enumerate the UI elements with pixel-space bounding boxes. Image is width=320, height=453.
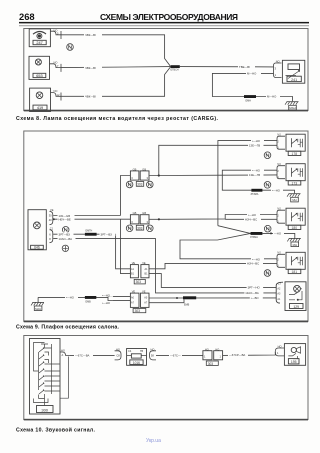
- svg-text:181: 181: [292, 270, 298, 274]
- svg-text:13АО—ВА: 13АО—ВА: [245, 291, 259, 295]
- svg-text:268: 268: [19, 11, 35, 22]
- wire label HE4-BE: [58, 217, 75, 221]
- circled N 181: [264, 270, 271, 277]
- svg-text:—67СР—ВА: —67СР—ВА: [229, 353, 245, 357]
- wire label NO 173: [251, 168, 264, 172]
- svg-text:129: 129: [293, 305, 299, 309]
- wire 1 label: [84, 33, 102, 37]
- svg-text:303: 303: [135, 309, 141, 313]
- wire label 3PT-B3: [58, 232, 74, 236]
- svg-text:ТВЕ—ВІ: ТВЕ—ВІ: [239, 65, 250, 69]
- svg-text:ЗТЗМА: ЗТЗМА: [251, 193, 259, 196]
- wire pair3 bottom out to lamp A2: [149, 274, 276, 288]
- svg-text:VЕ: VЕ: [142, 290, 146, 294]
- svg-text:НЗЧ—ВС: НЗЧ—ВС: [247, 262, 259, 266]
- svg-text:173: 173: [292, 181, 298, 185]
- svg-text:GВ: GВ: [133, 167, 137, 171]
- svg-text:•—НО: •—НО: [102, 293, 111, 297]
- svg-text:300: 300: [41, 407, 48, 412]
- wire 181 top into box: [276, 258, 277, 260]
- svg-text:303: 303: [137, 183, 143, 187]
- svg-text:—67С—: —67С—: [170, 354, 181, 358]
- wire 180 lower: [225, 218, 277, 220]
- connector shell VE at 646: [50, 211, 53, 224]
- courtesy switch 181: [277, 252, 305, 273]
- pin stub of 419: [51, 93, 62, 101]
- svg-text:С4: С4: [128, 349, 132, 353]
- bottom run wire to EMB bar: [38, 296, 108, 298]
- wire label NO gnd2: [273, 232, 284, 236]
- svg-text:303: 303: [208, 362, 214, 366]
- ground 1 schematic 9: [287, 194, 301, 202]
- circled N below pair1 left: [126, 181, 133, 188]
- timer unit 646 box: [28, 210, 46, 250]
- ground 2 schematic 9: [287, 238, 301, 246]
- wire 2 from 653: [61, 67, 171, 68]
- wire pair3 top out to 181 lower: [149, 263, 277, 268]
- wire label NO 178: [251, 139, 264, 143]
- wire label H34-BC 180: [244, 217, 261, 221]
- svg-text:МАН: МАН: [35, 307, 41, 311]
- wire to 173 lower pin: [222, 174, 277, 176]
- svg-text:МН: МН: [293, 243, 297, 247]
- circled N 173: [264, 182, 271, 189]
- svg-text:241: 241: [291, 78, 297, 82]
- wire 2 label: [84, 66, 102, 70]
- ground MAH schematic 8: [285, 102, 299, 110]
- wire label M-NO right: [266, 95, 280, 99]
- wire label 13K-GB: [58, 214, 75, 218]
- switch 300 output pin: [60, 352, 70, 355]
- svg-text:1016: 1016: [133, 361, 140, 365]
- wire label 13E-GB 173: [248, 173, 264, 177]
- svg-text:NO: NO: [277, 162, 281, 166]
- svg-text:303: 303: [137, 226, 143, 230]
- svg-text:—67С—ВА: —67С—ВА: [75, 354, 89, 358]
- lamp 653 box: [29, 56, 50, 79]
- circled N below pair1 right: [147, 181, 154, 188]
- svg-text:13АО—ВА: 13АО—ВА: [59, 237, 73, 241]
- wire label 13E-GB 178: [248, 143, 264, 147]
- schematic 9 frame: [24, 131, 308, 321]
- wire 3 from 419: [61, 67, 171, 97]
- svg-text:13Е—ГВ: 13Е—ГВ: [249, 173, 260, 177]
- column switch 300 internals: [34, 343, 60, 406]
- wire label NO pair4 lower: [101, 301, 113, 305]
- svg-text:НО: НО: [215, 347, 219, 351]
- wire label 3PT-B3 right: [100, 232, 116, 236]
- svg-text:С7: С7: [278, 281, 282, 285]
- splice bar ETRCH: [171, 65, 180, 68]
- svg-text:ЗТЗМА: ЗТЗМА: [250, 236, 258, 239]
- pin stub of 247: [50, 31, 61, 39]
- riser to pair3 lower pin: [121, 219, 131, 273]
- svg-text:ЗРТ—НО: ЗРТ—НО: [248, 286, 261, 290]
- rotary connector right shell: [150, 351, 156, 360]
- svg-text:GВ: GВ: [142, 211, 146, 215]
- riser junction to 178 lower wire: [159, 145, 277, 175]
- circled splice theta left: [62, 245, 68, 251]
- svg-text:303: 303: [136, 280, 142, 284]
- horn connector shell: [275, 348, 284, 356]
- wire 646-40: [53, 218, 130, 220]
- svg-text:Схема 9. Плафон освещения сало: Схема 9. Плафон освещения салона.: [16, 324, 120, 331]
- wire switch to rotary connector: [70, 354, 115, 356]
- svg-text:NO: NO: [276, 60, 280, 64]
- wire label NO pair4 upper: [101, 293, 113, 297]
- pair connector 303 second (GB-GB): [130, 215, 149, 224]
- svg-text:НО: НО: [278, 345, 282, 349]
- circled N 178: [264, 152, 271, 159]
- wire rotary to pair connector: [156, 354, 203, 356]
- svg-text:ЕМТН: ЕМТН: [86, 230, 93, 233]
- svg-text:Схема 8. Лампа освещения места: Схема 8. Лампа освещения места водителя …: [16, 116, 219, 122]
- svg-text:VЕ: VЕ: [50, 208, 54, 212]
- bottom run right upper wire to lamp A1: [149, 297, 276, 299]
- svg-text:С8: С8: [116, 353, 120, 357]
- dash lamp 247 box: [29, 29, 50, 47]
- label 300: [37, 406, 54, 413]
- pair connector 303 top (GB-GB): [130, 171, 149, 180]
- circled N below pair2 right: [147, 225, 154, 232]
- svg-text:GВ: GВ: [133, 211, 137, 215]
- connector shell C1 at 646: [50, 230, 53, 243]
- svg-text:NO: NO: [54, 60, 58, 64]
- pair connector 303 horn: [203, 351, 223, 360]
- svg-text:НЗЧ—ВС: НЗЧ—ВС: [245, 218, 257, 222]
- rotary contact 1016 box: [127, 349, 147, 366]
- schematic 8 frame bottom accent: [24, 110, 308, 112]
- svg-text:•—НО: •—НО: [66, 296, 75, 300]
- junction dot gnd2 wire: [270, 232, 272, 234]
- wire label NO 181: [251, 257, 264, 261]
- svg-text:НО: НО: [151, 347, 155, 351]
- circled splice in schematic 8: [67, 44, 74, 51]
- svg-text:VЕ: VЕ: [132, 290, 136, 294]
- splice bar 3T3MA lower: [251, 232, 263, 235]
- return wire from pin 1 to EMH bar and ground: [212, 73, 292, 101]
- svg-text:НО: НО: [61, 349, 65, 353]
- svg-text:ЕТВСН: ЕТВСН: [171, 69, 179, 72]
- interior lamp 129 shell: [276, 282, 283, 303]
- svg-text:419: 419: [37, 106, 43, 110]
- tag 303 pair3: [134, 279, 145, 284]
- svg-text:ЧВК—ВІ: ЧВК—ВІ: [85, 95, 96, 99]
- wire label 3PT-HO lamp: [247, 286, 264, 290]
- svg-text:•—ВО: •—ВО: [251, 296, 260, 300]
- wire label NO 180: [247, 213, 260, 217]
- svg-text:НО: НО: [116, 347, 120, 351]
- converging wires into bar 3T3MA lower: [218, 226, 251, 240]
- svg-text:•—НО: •—НО: [248, 213, 257, 217]
- svg-text:NO: NO: [277, 206, 281, 210]
- wire bar to ground 2: [262, 233, 294, 238]
- svg-text:NO: NO: [54, 89, 58, 93]
- wire label NO gnd1: [271, 188, 283, 192]
- wire pair1 to junction: [149, 174, 222, 176]
- svg-text:НО: НО: [205, 347, 209, 351]
- svg-text:180: 180: [292, 226, 298, 230]
- svg-text:ЗРТ—ВЗ: ЗРТ—ВЗ: [59, 233, 71, 237]
- svg-text:СХЕМЫ ЭЛЕКТРООБОРУДОВАНИЯ: СХЕМЫ ЭЛЕКТРООБОРУДОВАНИЯ: [100, 12, 238, 22]
- wire label M-NO: [246, 71, 261, 75]
- rheostat 241 box: [282, 60, 304, 83]
- splice bar EMB 2: [183, 296, 196, 299]
- wire label NO bottom left: [65, 296, 78, 300]
- svg-text:ЧВК—ВІ: ЧВК—ВІ: [85, 66, 96, 70]
- svg-text:А: А: [62, 353, 64, 357]
- wire 1 from 247: [61, 35, 171, 67]
- header rule thick: [19, 22, 309, 24]
- tag 303 pair4: [133, 309, 146, 314]
- wire label 67C: [169, 353, 182, 357]
- main wire to rheostat pin 3: [180, 66, 274, 68]
- wire label 13AO-BA right: [244, 291, 263, 295]
- courtesy switch 178: [277, 134, 305, 155]
- schematic 9 frame bottom accent: [24, 321, 308, 323]
- pair connector 303 third (VE-VE): [130, 265, 149, 278]
- courtesy switch 180: [277, 208, 305, 229]
- courtesy switch 173: [277, 164, 305, 185]
- wire to 181 top: [180, 240, 276, 259]
- pin stub of 653: [50, 64, 62, 72]
- tag 303 horn pair: [206, 361, 218, 366]
- svg-text:М—НО: М—НО: [247, 72, 257, 76]
- svg-text:247: 247: [36, 41, 42, 45]
- svg-text:НЕЧ—ВЕ: НЕЧ—ВЕ: [59, 218, 71, 222]
- column switch 300 box: [30, 339, 61, 415]
- schematic 10 frame bottom accent: [24, 419, 308, 421]
- svg-text:646: 646: [34, 246, 40, 250]
- splice bar 3T3MA upper: [251, 189, 262, 192]
- svg-text:NO: NO: [277, 251, 281, 255]
- splice bar EMB: [85, 296, 96, 299]
- wire 646-8 to lamp A3: [53, 239, 276, 293]
- svg-text:ЧВК—ВІ: ЧВК—ВІ: [85, 33, 96, 37]
- wire pair2 out to 180: [149, 215, 277, 220]
- svg-text:М—НО: М—НО: [267, 95, 277, 99]
- header rule thin: [19, 24, 309, 27]
- svg-text:NO: NO: [277, 132, 281, 136]
- svg-text:13Е—ГВ: 13Е—ГВ: [249, 144, 260, 148]
- wire pair to horn: [223, 352, 276, 355]
- switch 300 outer pin bus: [60, 357, 68, 399]
- horn 195 box: [284, 344, 305, 366]
- circled N 180: [264, 225, 271, 232]
- wire 173 top pin to ground bar: [222, 170, 294, 193]
- splice bar EMTH: [85, 233, 97, 236]
- svg-text:•—НО: •—НО: [272, 189, 281, 193]
- junction dot pair1: [158, 174, 160, 176]
- circled N below pair2 left: [126, 225, 133, 232]
- split to pair4 pins: [108, 296, 130, 300]
- wire label BO lamp: [250, 296, 263, 300]
- pair connector 303 fourth (VE-VE): [130, 293, 149, 307]
- svg-text:ЗРТ—ВЗ: ЗРТ—ВЗ: [101, 233, 113, 237]
- svg-text:•—НО: •—НО: [252, 139, 261, 143]
- svg-text:VЕ: VЕ: [142, 261, 146, 265]
- connector shell at rheostat: [274, 63, 282, 78]
- wire 646-30: [53, 215, 120, 217]
- trunk vertical to 178 top wire: [218, 141, 277, 226]
- wire label 67CP-BA: [228, 353, 248, 357]
- bottom-left ground schematic 9: [31, 297, 44, 310]
- svg-text:С1: С1: [50, 226, 54, 230]
- svg-text:Укр.ua: Укр.ua: [146, 438, 161, 444]
- interior lamp 129 box: [285, 282, 306, 311]
- tag 303 pair1: [136, 182, 143, 187]
- rotary connector left shell: [115, 351, 121, 360]
- junction dot pair2: [158, 218, 160, 220]
- wire label H34-BC 181: [246, 262, 263, 266]
- lamp 419 box: [30, 88, 51, 111]
- schematic 10 frame: [24, 336, 308, 420]
- wire label 67C-BA: [74, 353, 93, 357]
- svg-text:МАН: МАН: [289, 106, 295, 110]
- wire label 13AO-BA: [58, 237, 76, 241]
- tag 303 pair2: [136, 225, 143, 230]
- wire label TBE-VI: [238, 65, 255, 69]
- bottom run lower wire to EMB2 bar: [149, 300, 184, 303]
- svg-text:ЕМВ: ЕМВ: [86, 300, 92, 303]
- svg-text:ЕМН: ЕМН: [246, 99, 252, 102]
- svg-text:178: 178: [292, 152, 298, 156]
- riser from pair1 wire: [121, 176, 131, 216]
- schematic 8 frame: [24, 29, 308, 111]
- svg-text:195: 195: [291, 360, 297, 364]
- svg-text:VЕ: VЕ: [132, 261, 136, 265]
- svg-text:ГВ: ГВ: [140, 349, 143, 353]
- svg-text:•—НО: •—НО: [102, 301, 111, 305]
- svg-text:653: 653: [36, 74, 42, 78]
- wire 646-6 with EMTH bar: [53, 234, 130, 269]
- junction dot at 646-40: [53, 218, 55, 220]
- svg-text:•—НО: •—НО: [252, 169, 261, 173]
- splice bar EMH: [244, 95, 256, 98]
- circled splice N left: [62, 227, 69, 234]
- svg-text:Схема 10. Звуковой сигнал.: Схема 10. Звуковой сигнал.: [16, 426, 96, 433]
- svg-text:МН: МН: [292, 198, 296, 202]
- wire 3 label: [84, 94, 102, 98]
- svg-text:—НО: —НО: [274, 232, 282, 236]
- junction dot bottom run: [176, 297, 178, 299]
- svg-text:ЕМВ: ЕМВ: [184, 304, 190, 307]
- svg-text:GВ: GВ: [142, 167, 146, 171]
